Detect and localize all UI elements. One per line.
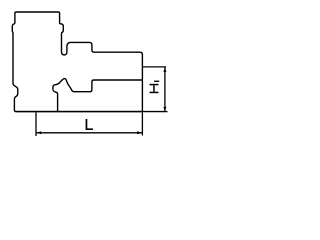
H1 top extension line [142, 66, 166, 68]
L arrow right [137, 131, 142, 134]
bottom base line + H1 bottom extension [16, 111, 168, 113]
H1 label (rotated) [150, 81, 160, 94]
L left extension line [35, 113, 37, 137]
H1 dimension line [164, 67, 166, 111]
L dimension line [36, 132, 142, 134]
L arrow left [36, 131, 41, 134]
H1 arrow top [163, 67, 166, 72]
valve body outline [12, 12, 142, 112]
L right extension line [141, 113, 143, 136]
L label [86, 119, 93, 130]
H1 arrow bottom [163, 107, 166, 112]
interior edge: pilot dome and body step [53, 79, 142, 112]
